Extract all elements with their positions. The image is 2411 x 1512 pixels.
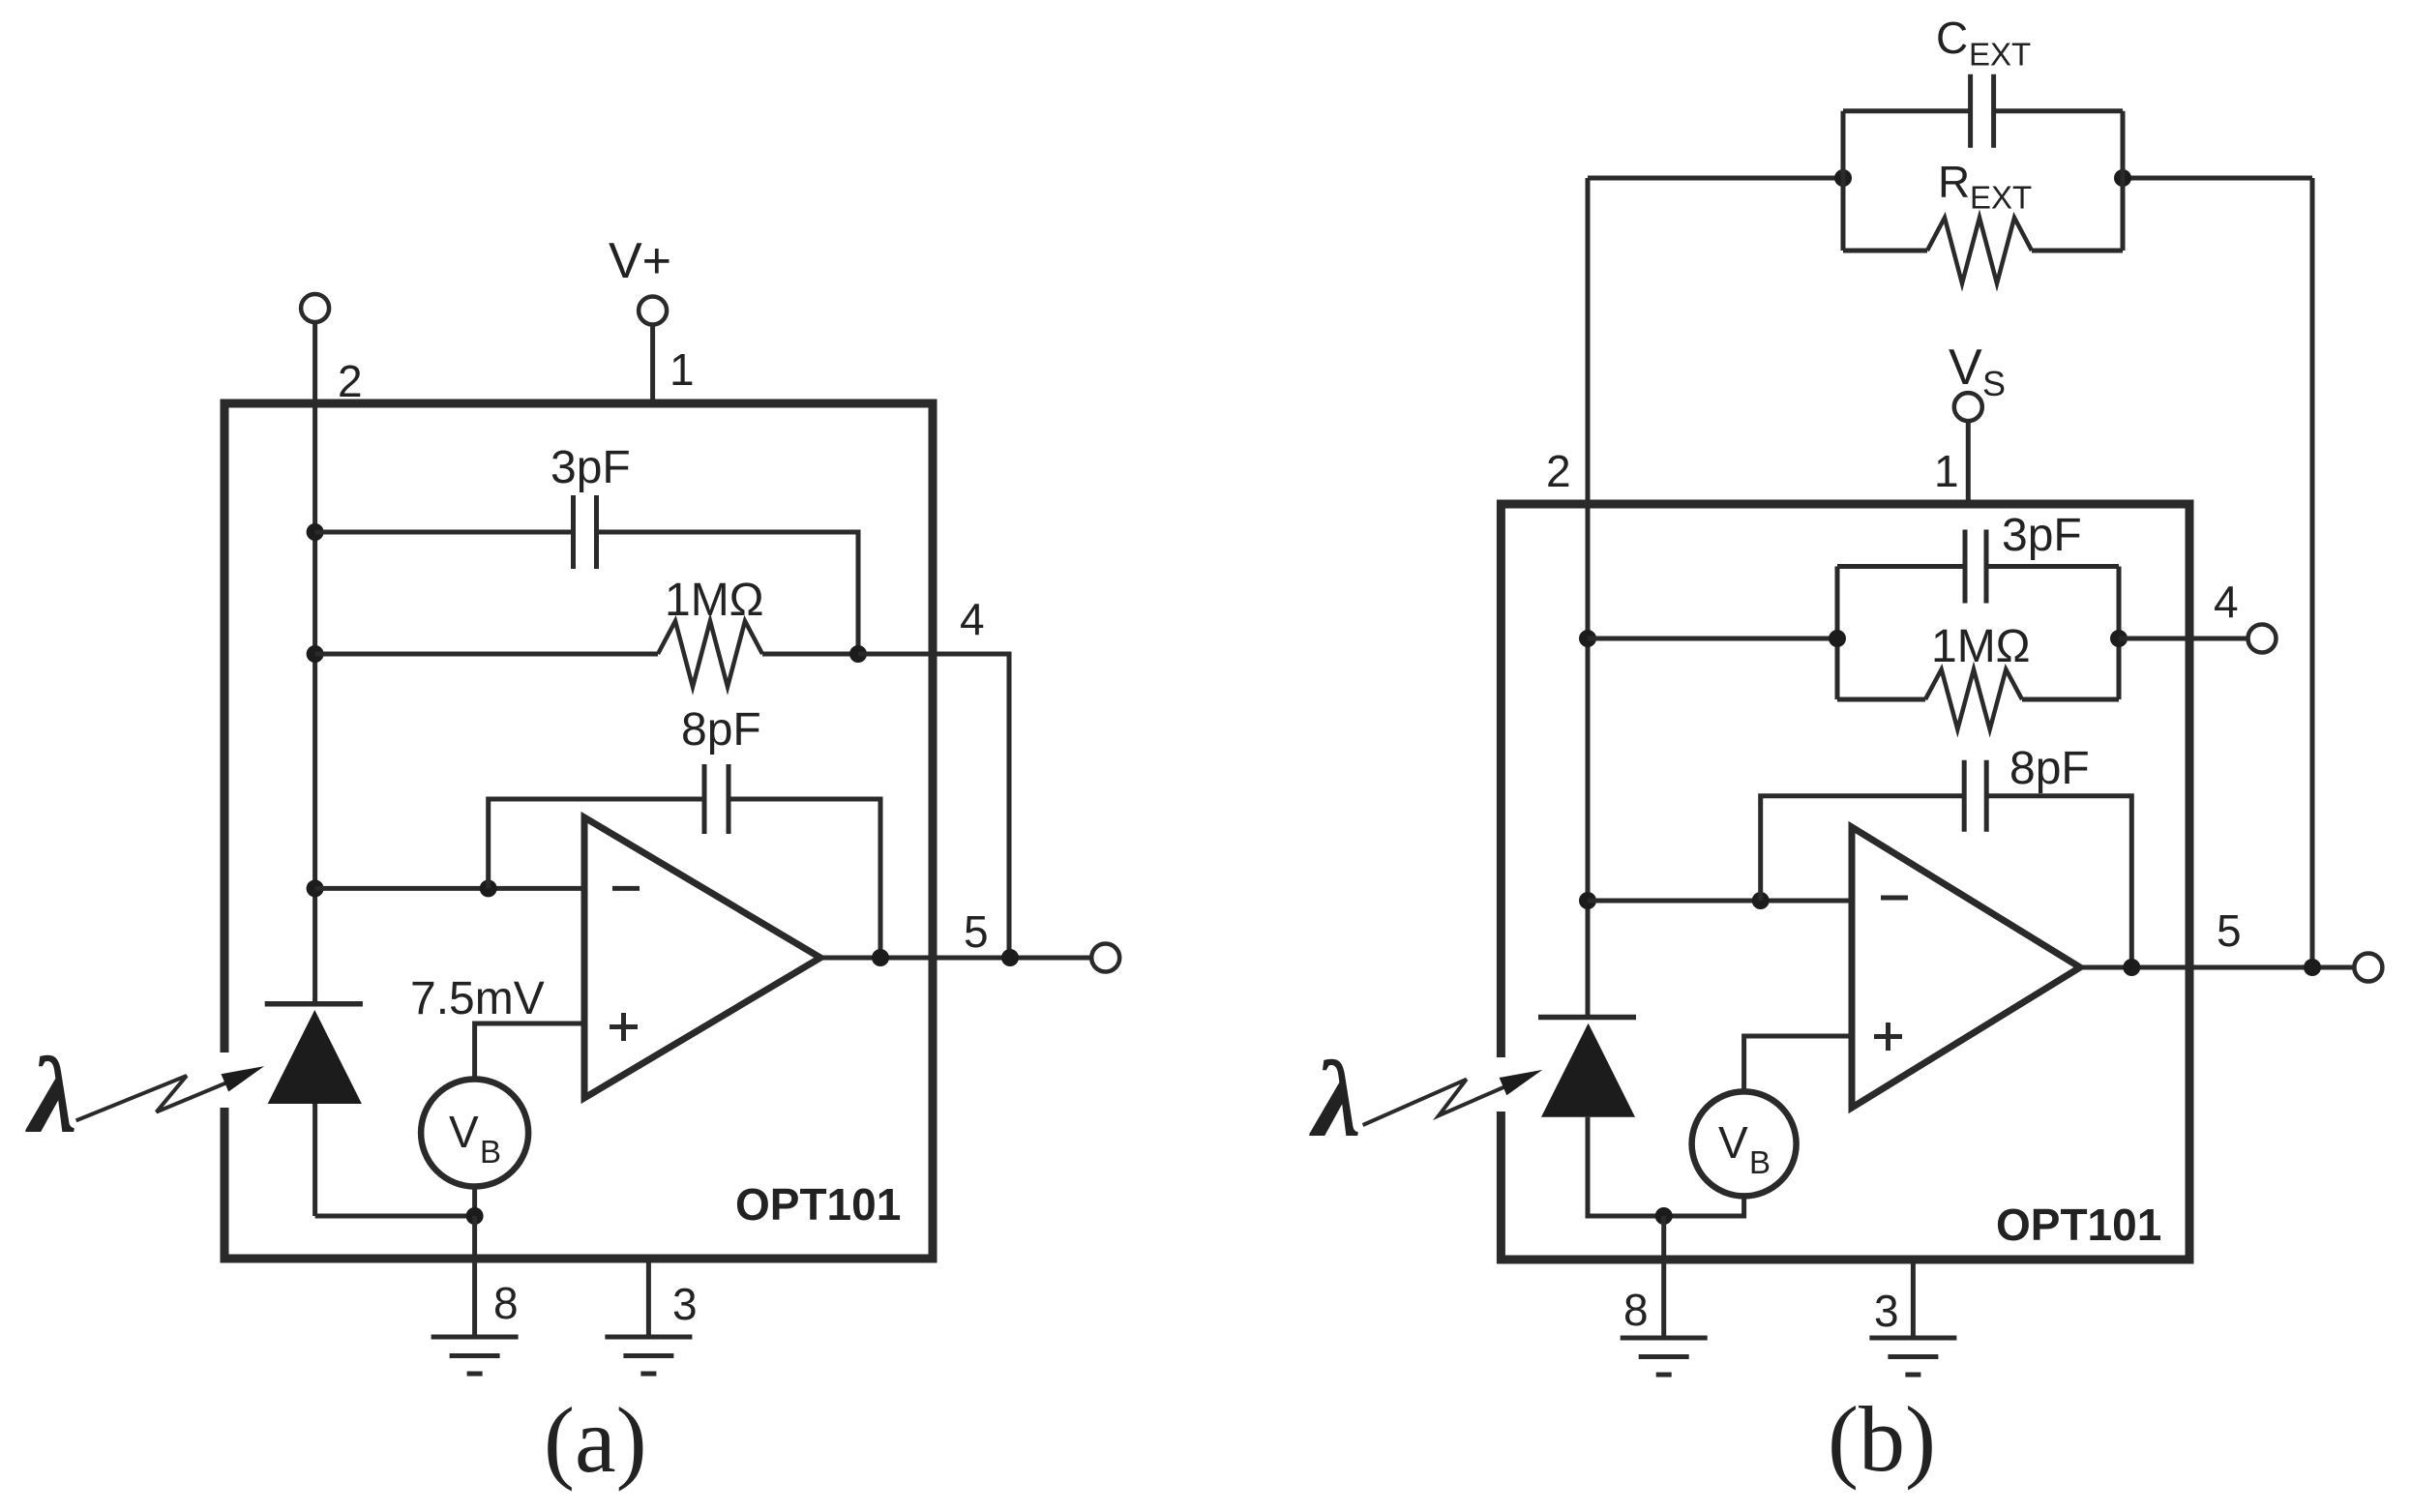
part label OPT101 (b) xyxy=(1996,1200,2161,1250)
wire pin 2 rail external (b) xyxy=(1586,178,1591,1018)
wire Cext top branch (b) xyxy=(1843,108,2123,113)
wire pin 3 stub (a) xyxy=(646,1259,651,1337)
svg-text:5: 5 xyxy=(2217,905,2242,956)
net label VS (b) xyxy=(1949,340,2006,403)
svg-text:3pF: 3pF xyxy=(2002,510,2082,561)
external network right side (b) xyxy=(2121,111,2126,251)
bias source VB circle (b) xyxy=(1692,1091,1797,1196)
bias source VB circle (a) xyxy=(421,1080,528,1187)
wire inverting input (b) xyxy=(1588,899,1852,904)
photodiode D1 triangle (a) xyxy=(268,1010,362,1104)
svg-text:2: 2 xyxy=(338,356,363,406)
pin label 3 (b) xyxy=(1874,1286,1899,1336)
node junction feedback pin 4 (a) xyxy=(849,645,867,663)
terminal output pin 5 (b) xyxy=(2354,954,2382,982)
svg-text:OPT101: OPT101 xyxy=(735,1179,901,1230)
value label CEXT (b) xyxy=(1936,13,2031,73)
value label 8pF (a) xyxy=(681,704,761,756)
internal network left side (b) xyxy=(1835,567,1840,700)
ground symbol pin 3 (b) xyxy=(1869,1338,1956,1375)
node junction pin2/inverting (a) xyxy=(307,879,324,897)
capacitor CEXT (b) xyxy=(1971,74,1994,148)
svg-text:7.5mV: 7.5mV xyxy=(410,973,545,1024)
value label 8pF (b) xyxy=(2009,743,2090,794)
svg-text:4: 4 xyxy=(2214,577,2239,627)
figure label (b) xyxy=(1828,1387,1936,1491)
svg-text:1: 1 xyxy=(670,344,695,395)
photodiode D1 triangle (b) xyxy=(1541,1023,1635,1117)
svg-text:V: V xyxy=(1718,1117,1748,1168)
wire 8pF branch left (a) xyxy=(489,799,704,888)
svg-text:3: 3 xyxy=(1874,1286,1899,1336)
wire non-inverting input (a) xyxy=(475,1023,584,1080)
IC outline box OPT101 (b), left border gapped for light arrow xyxy=(1501,504,2189,1260)
wire Rext bottom branch (b) xyxy=(1843,249,2123,253)
internal network right side (b) xyxy=(2117,567,2122,700)
svg-text:OPT101: OPT101 xyxy=(1996,1200,2161,1250)
op-amp inverting - mark (a) xyxy=(612,886,640,891)
figure label (a) xyxy=(544,1388,647,1492)
op-amp U1 (b) xyxy=(1852,827,2080,1108)
svg-text:EXT: EXT xyxy=(1969,37,2031,73)
svg-text:(b): (b) xyxy=(1828,1387,1936,1491)
node junction anode/VB/pin8 (a) xyxy=(466,1207,484,1225)
wire non-inverting input (b) xyxy=(1744,1036,1852,1092)
ground symbol pin 3 (a) xyxy=(605,1337,692,1374)
light symbol lambda (a) xyxy=(25,1036,77,1156)
wire VB bottom lead (b) xyxy=(1664,1196,1744,1216)
photodiode D1 cathode bar (b) xyxy=(1538,1015,1636,1021)
wire pin 2 vertical rail (a) xyxy=(313,322,317,1004)
svg-text:5: 5 xyxy=(964,906,989,957)
net label V+ (a) xyxy=(609,233,671,289)
svg-text:λ: λ xyxy=(25,1036,77,1156)
wire pin 4 branch to output (a) xyxy=(858,654,1009,958)
op-amp U1 (a) xyxy=(584,817,820,1098)
svg-text:(a): (a) xyxy=(544,1388,647,1492)
wire op-amp output pin 5 (b) xyxy=(2080,965,2354,970)
node junction anode/VB/pin8 (b) xyxy=(1655,1207,1673,1225)
light arrow (b) xyxy=(1363,1070,1543,1125)
pin label 1 (b) xyxy=(1934,446,1959,496)
pin label 2 (b) xyxy=(1546,446,1571,496)
wire pin 8 stub (b) xyxy=(1661,1216,1666,1338)
wire 1M right lead (a) xyxy=(762,652,858,657)
terminal pin 4 (b) xyxy=(2248,625,2277,653)
pin label 1 (a) xyxy=(670,344,695,395)
ground symbol pin 8 (b) xyxy=(1621,1338,1708,1375)
pin label 8 (a) xyxy=(493,1278,519,1328)
node junction inverting/8pF (a) xyxy=(480,879,497,897)
svg-text:1MΩ: 1MΩ xyxy=(1931,621,2031,672)
svg-text:8: 8 xyxy=(493,1278,519,1328)
wire 3pF left lead (a) xyxy=(315,530,574,535)
resistor R1 1M&#937; (a) xyxy=(658,621,762,687)
node junction output/pin4 (a) xyxy=(1001,949,1019,966)
wire 1M bottom branch (b) xyxy=(1837,697,2119,702)
svg-text:8pF: 8pF xyxy=(681,704,761,756)
capacitor C2 8pF (b) xyxy=(1964,760,1986,832)
capacitor C1 3pF (b) xyxy=(1965,530,1986,604)
node junction Cext/Rext left (b) xyxy=(1834,169,1852,187)
pin label 8 (b) xyxy=(1623,1285,1649,1335)
wire 3pF right lead to feedback node (a) xyxy=(597,532,859,654)
svg-text:1MΩ: 1MΩ xyxy=(665,575,764,626)
svg-text:V+: V+ xyxy=(609,233,671,289)
value label REXT (b) xyxy=(1938,157,2032,216)
bias source VB label (b) xyxy=(1718,1117,1771,1180)
bias source VB label (a) xyxy=(449,1107,501,1170)
svg-text:8pF: 8pF xyxy=(2009,743,2090,794)
op-amp non-inverting + mark (b) xyxy=(1874,1023,1902,1051)
svg-text:3: 3 xyxy=(672,1279,698,1329)
terminal VS pin 1 (b) xyxy=(1954,393,1982,421)
value label 1M&#937; (a) xyxy=(665,575,764,626)
node junction pin2/feedback row (b) xyxy=(1579,630,1596,647)
wire feedback row left (b) xyxy=(1588,637,1837,641)
node junction output/8pF (b) xyxy=(2123,959,2140,976)
pin label 4 (a) xyxy=(960,594,985,644)
node junction inverting/8pF (b) xyxy=(1752,892,1770,909)
svg-text:λ: λ xyxy=(1309,1040,1361,1160)
svg-text:B: B xyxy=(1749,1144,1771,1180)
svg-text:B: B xyxy=(480,1134,501,1170)
part label OPT101 (a) xyxy=(735,1179,901,1230)
pin label 5 (a) xyxy=(964,906,989,957)
pin label 3 (a) xyxy=(672,1279,698,1329)
node junction pin2/3pF (a) xyxy=(307,523,324,541)
op-amp non-inverting + mark (a) xyxy=(610,1013,638,1041)
pin label 2 (a) xyxy=(338,356,363,406)
wire pin 8 stub (a) xyxy=(472,1216,477,1337)
value label 3pF (b) xyxy=(2002,510,2082,561)
wire output feedback right rail (b) xyxy=(2310,178,2315,967)
resistor REXT (b) xyxy=(1927,218,2032,283)
wire photodiode anode return (b) xyxy=(1588,1117,1664,1216)
value label 1M&#937; (b) xyxy=(1931,621,2031,672)
wire VB bottom lead (a) xyxy=(472,1187,477,1217)
resistor R1 1M&#937; (b) xyxy=(1925,669,2022,729)
pin label 4 (b) xyxy=(2214,577,2239,627)
photodiode D1 cathode bar (a) xyxy=(265,1001,363,1007)
svg-text:C: C xyxy=(1936,13,1968,63)
node junction output/feedback rail (b) xyxy=(2304,959,2321,976)
node junction pin2/1M (a) xyxy=(307,645,324,663)
terminal pin 2 (a) xyxy=(301,294,329,322)
node junction network left (b) xyxy=(1829,630,1846,647)
wire external network row right (b) xyxy=(2123,176,2312,181)
node junction Cext/Rext right (b) xyxy=(2114,169,2131,187)
wire 1M left lead (a) xyxy=(315,652,658,657)
wire 8pF branch right (b) xyxy=(1986,796,2131,967)
light arrow (a) xyxy=(76,1066,265,1120)
capacitor C2 8pF (a) xyxy=(704,764,729,834)
offset label 7.5mV (a) xyxy=(410,973,545,1024)
wire photodiode anode return (a) xyxy=(315,1104,475,1216)
svg-text:R: R xyxy=(1938,157,1970,207)
wire op-amp output pin 5 (a) xyxy=(820,956,1091,961)
svg-text:EXT: EXT xyxy=(1970,180,2032,216)
op-amp inverting - mark (b) xyxy=(1881,896,1908,901)
external network left side (b) xyxy=(1841,111,1846,251)
node junction output/8pF (a) xyxy=(872,949,889,966)
svg-text:V: V xyxy=(1949,340,1982,396)
wire 8pF branch left (b) xyxy=(1761,796,1964,901)
node junction pin2/inverting (b) xyxy=(1579,892,1596,909)
wire external network row left (b) xyxy=(1588,176,1843,181)
ground symbol pin 8 (a) xyxy=(432,1337,519,1374)
svg-text:2: 2 xyxy=(1546,446,1571,496)
wire 8pF branch right (a) xyxy=(729,799,880,958)
capacitor C1 3pF (a) xyxy=(574,495,597,569)
svg-text:3pF: 3pF xyxy=(551,442,631,493)
terminal V+ pin 1 (a) xyxy=(639,297,667,325)
pin label 5 (b) xyxy=(2217,905,2242,956)
wire inverting input (a) xyxy=(315,886,584,891)
value label 3pF (a) xyxy=(551,442,631,493)
wire pin 4 lead (b) xyxy=(2119,637,2248,641)
wire 3pF top branch (b) xyxy=(1837,564,2119,569)
svg-text:8: 8 xyxy=(1623,1285,1649,1335)
svg-text:V: V xyxy=(449,1107,479,1157)
svg-text:S: S xyxy=(1982,364,2006,403)
light symbol lambda (b) xyxy=(1309,1040,1361,1160)
IC outline box OPT101 (a), left border gapped for light arrow xyxy=(224,403,933,1259)
node junction network right (b) xyxy=(2110,630,2128,647)
wire pin 3 stub (b) xyxy=(1911,1260,1916,1338)
svg-text:1: 1 xyxy=(1934,446,1959,496)
wire pin 1 stub (a) xyxy=(650,325,655,403)
svg-text:4: 4 xyxy=(960,594,985,644)
terminal output pin 5 (a) xyxy=(1091,944,1119,972)
wire pin 1 stub (b) xyxy=(1966,421,1971,504)
